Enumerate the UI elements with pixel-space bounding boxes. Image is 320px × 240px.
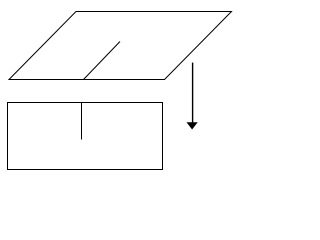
parallelogram plane (top, perspective view) (9, 12, 232, 80)
arrow head (187, 122, 198, 129)
rectangle (bottom, front view) (8, 103, 163, 170)
oblique segment inside parallelogram (84, 42, 121, 80)
arrow shaft (192, 63, 194, 123)
vertical segment inside rectangle (81, 103, 83, 140)
